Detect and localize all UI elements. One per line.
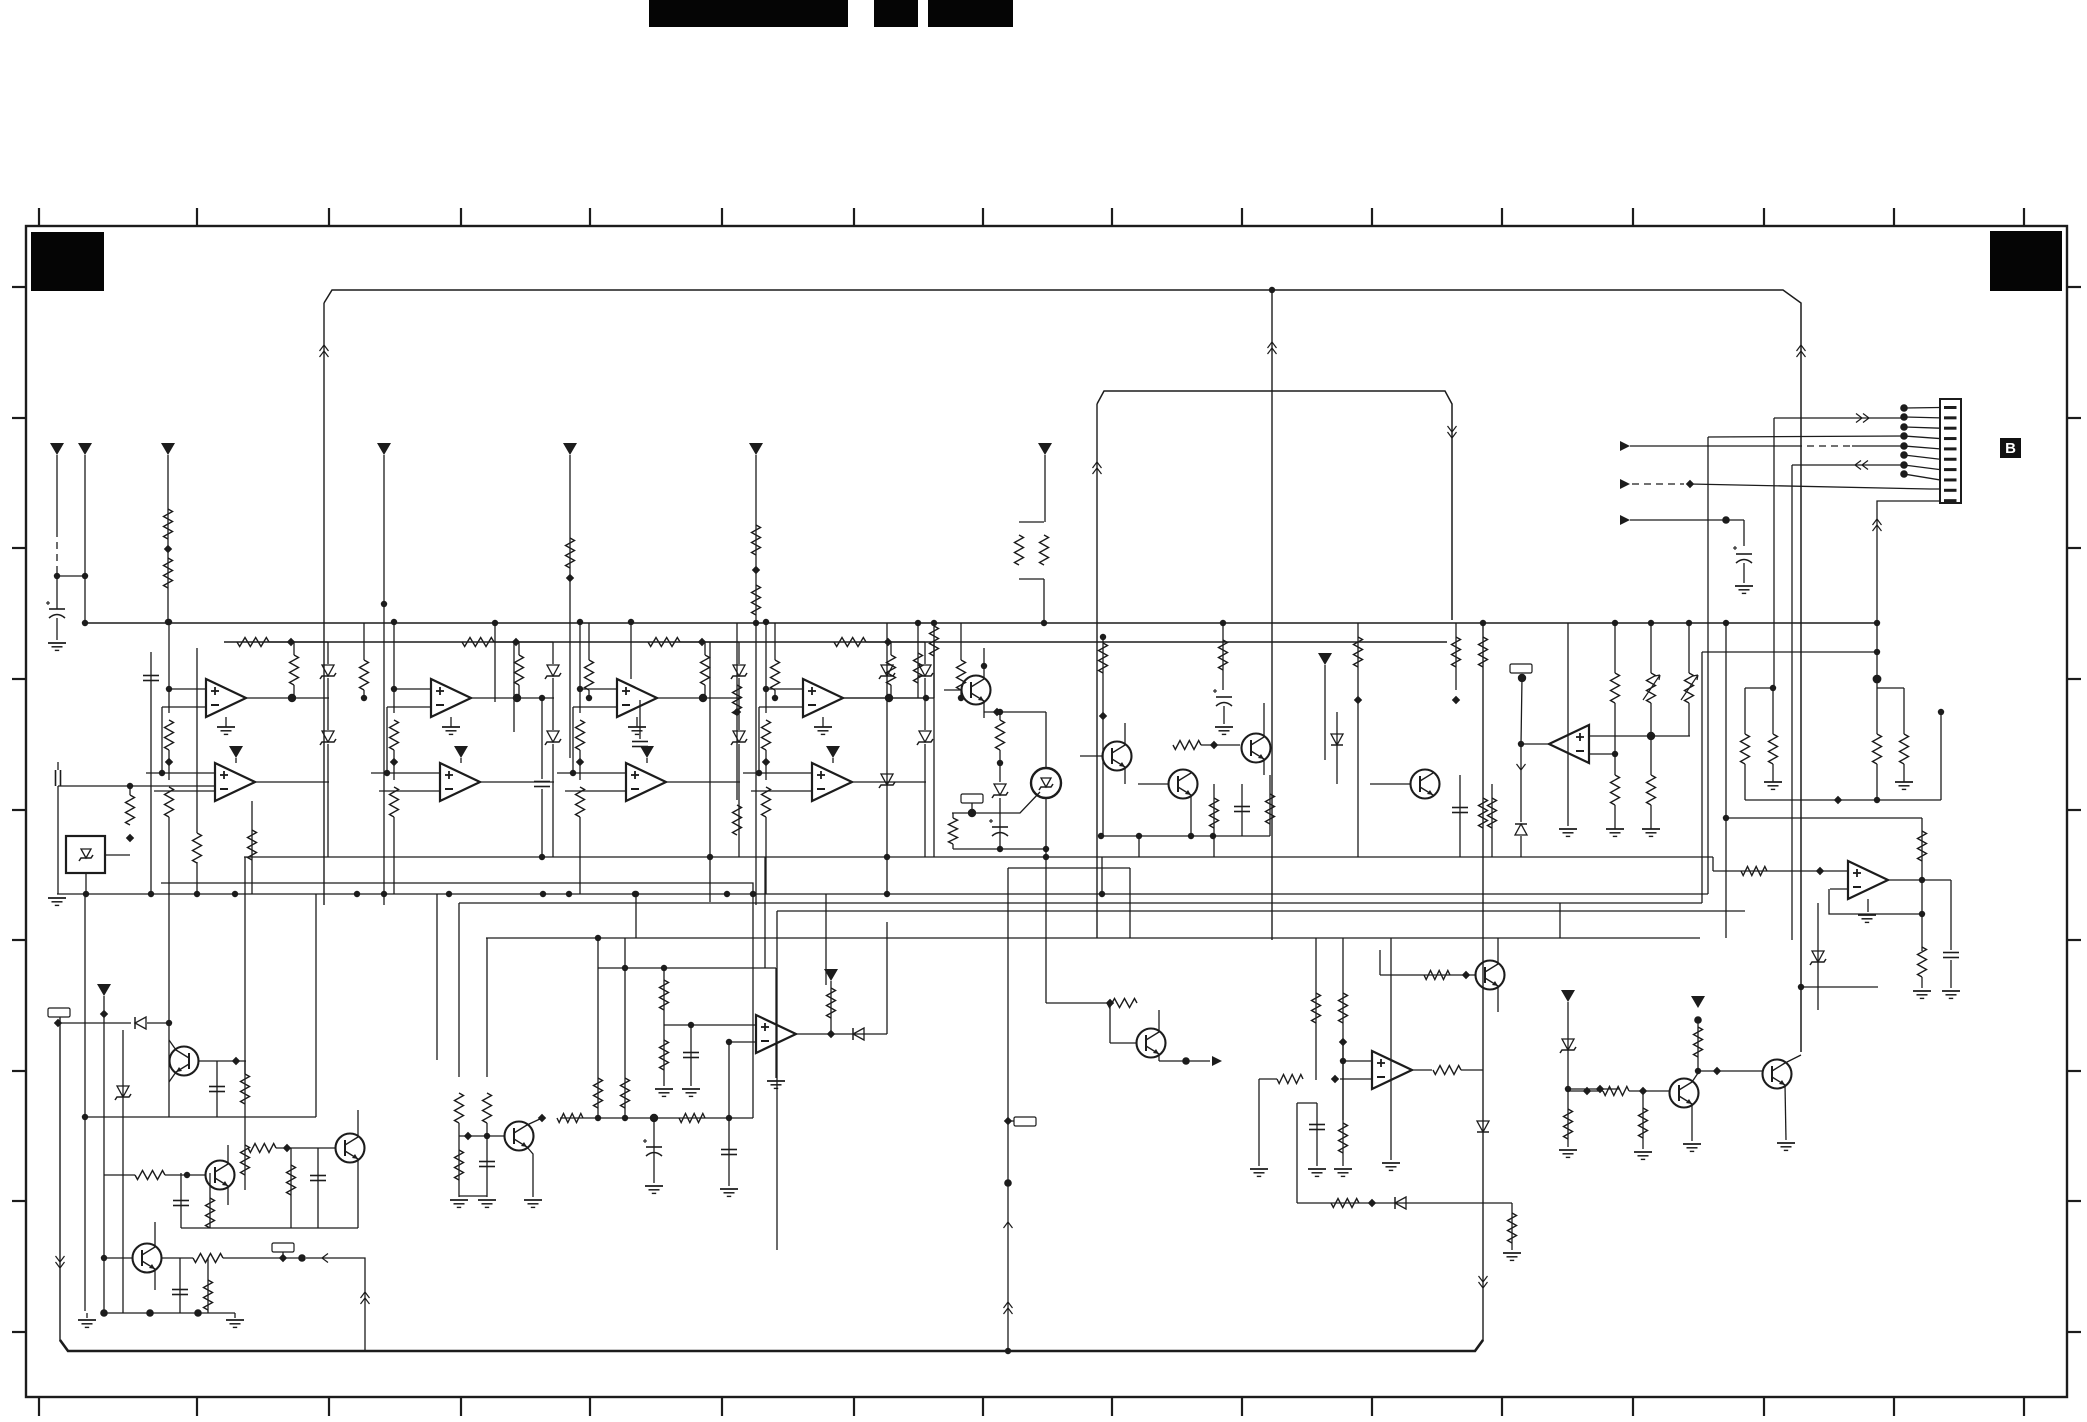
- zener diode D7b: [994, 784, 1006, 795]
- wire row437: [1708, 436, 1904, 437]
- wire row446a: [1630, 445, 1795, 447]
- junction rail894 l: [750, 891, 756, 897]
- wire D32 down: [738, 744, 740, 857]
- wire R22 lead: [588, 623, 590, 660]
- zener diode D12: [117, 1086, 129, 1097]
- ground G21: [1334, 1168, 1352, 1170]
- wire DZ1 right: [105, 854, 130, 856]
- wire Q1 base: [944, 689, 962, 691]
- wire P1 drop: [56, 455, 58, 530]
- wire P7 drop: [1044, 455, 1046, 522]
- wire C1 gnd lead: [56, 618, 58, 640]
- wire N3 lead: [59, 1017, 61, 1018]
- ground G15: [478, 1199, 496, 1201]
- wire U9 top: [1045, 712, 1047, 768]
- wire v1316: [1315, 938, 1317, 1080]
- resistor R53: [660, 980, 669, 1010]
- wire arrow bus2 left: [1093, 462, 1102, 468]
- zener diode D12: [322, 731, 334, 742]
- resistor R65: [1694, 1027, 1703, 1057]
- wire R44-5 link: [765, 750, 767, 780]
- junction right bus 987: [1798, 984, 1804, 990]
- wire Q2 coll: [1124, 723, 1126, 745]
- junction D16: [1565, 1086, 1571, 1092]
- wire N4 lead: [282, 1252, 284, 1258]
- wire J1 node 4 to pin: [1904, 436, 1940, 439]
- resistor R66: [1603, 1087, 1629, 1096]
- wire R41 out: [165, 1174, 205, 1176]
- capacitor C7: [1216, 696, 1232, 698]
- junction 1102: [1099, 891, 1105, 897]
- junction J1 node 5: [1900, 442, 1908, 450]
- wire gate row: [952, 792, 1040, 813]
- wire arrow row465: [1855, 461, 1861, 470]
- junction colD 857: [884, 854, 890, 860]
- wire arrow v365: [361, 1292, 370, 1298]
- wire colA v197 lower: [196, 862, 198, 894]
- thyristor U9 circle: [1031, 768, 1061, 798]
- wire D12 down: [327, 744, 329, 857]
- junction R42 out: [958, 695, 964, 701]
- wire row1313: [104, 1312, 235, 1314]
- wire U8 +in: [1343, 1060, 1372, 1062]
- wire J1 node 7 to pin: [1904, 465, 1940, 470]
- resistor R31: [1647, 775, 1656, 805]
- redaction bar 2 (top): [874, 0, 918, 27]
- signal arrow A4: [1212, 1056, 1222, 1066]
- wire Q11 emit: [1158, 1054, 1160, 1061]
- wire v1560: [1559, 903, 1561, 938]
- capacitor C12: [209, 1086, 225, 1088]
- wire U6 out: [1888, 879, 1951, 881]
- zener diode D42: [919, 731, 931, 742]
- connector J1 pin 3: [1944, 427, 1957, 430]
- wire v316b: [315, 894, 317, 1117]
- wire row1203: [1297, 1202, 1512, 1204]
- junction row968b: [661, 965, 667, 971]
- wire v625: [624, 938, 626, 1118]
- junction U1A out: [288, 694, 296, 702]
- wire U1A -in: [162, 706, 206, 708]
- power flag P6: [749, 443, 763, 455]
- wire C17 v: [653, 1118, 655, 1183]
- redaction bar 3 (top): [928, 0, 1013, 27]
- connector J1 pin 9: [1944, 489, 1957, 492]
- resistor R20: [996, 720, 1005, 750]
- wire v459: [458, 903, 460, 1077]
- resistor R4: [752, 525, 761, 555]
- junction pair link: [1770, 685, 1776, 691]
- junction row1118a: [595, 1115, 601, 1121]
- wire U2A fb: [386, 707, 388, 773]
- zener diode D41: [919, 665, 931, 676]
- resistor R5: [752, 585, 761, 615]
- junction riser 1008 bottom: [1005, 1348, 1011, 1354]
- wire colD link: [843, 697, 934, 699]
- wire R23 link: [1201, 744, 1240, 746]
- wire Q1 coll: [983, 648, 985, 679]
- junction trio rail 0: [1612, 620, 1618, 626]
- wire R42 row: [276, 1147, 335, 1149]
- resistor R1: [164, 509, 173, 539]
- wire v888: [886, 922, 888, 1034]
- wire R43 link: [866, 641, 925, 643]
- wire riser x=1008: [1007, 868, 1009, 1351]
- wire R66 in: [1568, 1090, 1603, 1092]
- sheet reference label B: [2000, 438, 2021, 458]
- wire Q12 coll: [1692, 1073, 1698, 1082]
- wire R67 v: [1642, 1091, 1644, 1149]
- resistor R38: [1918, 947, 1927, 977]
- wire row484 dashed: [1632, 483, 1684, 485]
- wire D42 lead: [924, 698, 926, 730]
- wire R17 v: [917, 623, 919, 698]
- resistor R61: [1339, 1123, 1348, 1153]
- connector J1 body: [1940, 399, 1961, 503]
- ground G25: [1634, 1151, 1652, 1153]
- diode D13: [853, 1028, 864, 1040]
- wire U6 fb: [1829, 889, 1922, 914]
- wire R42 lead: [960, 623, 962, 660]
- wire U3A out: [657, 697, 740, 699]
- zener diode D21: [547, 665, 559, 676]
- wire R45 v: [207, 1258, 209, 1313]
- resistor R33: [648, 638, 680, 647]
- power flag P5: [563, 443, 577, 455]
- junction U4A out: [885, 694, 893, 702]
- resistor R8: [1040, 535, 1049, 565]
- wire U2A gnd lead: [450, 717, 452, 727]
- wire bottom bus (net GNDR): [60, 1340, 1483, 1351]
- resistor R40: [241, 1145, 250, 1175]
- wire G13 lead: [234, 1313, 236, 1318]
- ground G11: [1735, 585, 1753, 587]
- wire Q10 coll: [527, 1118, 542, 1125]
- wire R39 v: [244, 1061, 246, 1117]
- ground G14: [450, 1199, 468, 1201]
- power flag P3: [161, 443, 175, 455]
- wire D22 down: [552, 744, 554, 857]
- junction 636: [633, 891, 639, 897]
- resistor R26: [1354, 637, 1363, 667]
- wire R35 down: [579, 817, 581, 894]
- zener diode DZ1s: [81, 849, 91, 858]
- wire Q11 coll: [1158, 1010, 1160, 1032]
- resistor R28: [1488, 798, 1497, 828]
- power flag P10: [824, 969, 838, 981]
- wire R30 gnd: [1614, 805, 1616, 829]
- zener diode D7 (in U9): [1041, 778, 1051, 787]
- resistor R51: [594, 1078, 603, 1108]
- junction U9 bot: [1043, 846, 1049, 852]
- wire R25 v: [1269, 775, 1271, 836]
- resistor R30: [1611, 775, 1620, 805]
- net label N5: [1014, 1117, 1036, 1126]
- resistor R42: [957, 660, 966, 690]
- wire x1000 col mid: [999, 750, 1001, 782]
- wire P1-P2 link: [57, 575, 85, 577]
- transistor Q1: [962, 676, 991, 705]
- wire Q9 coll: [154, 1222, 156, 1247]
- junction rail894 f: [381, 891, 387, 897]
- op-amp U3A: [617, 679, 657, 717]
- wire v1130: [1129, 868, 1131, 938]
- resistor R12: [126, 795, 135, 825]
- diode D11: [135, 1017, 146, 1029]
- wire rail857 corner: [1712, 857, 1714, 871]
- wire v826: [825, 894, 827, 985]
- wire D21 lead: [552, 642, 554, 664]
- ground G20: [1308, 1168, 1326, 1170]
- wire R21 leads: [518, 642, 520, 655]
- resistor R32: [771, 660, 780, 690]
- junction U5 out: [1518, 741, 1524, 747]
- junction right 652: [1873, 675, 1882, 684]
- wire P8 drop: [1324, 665, 1326, 760]
- junction U4A +: [763, 686, 769, 692]
- junction U6 out: [1919, 877, 1925, 883]
- wire R14-5 link: [168, 750, 170, 780]
- wire Q3 emit down: [1190, 795, 1192, 836]
- wire Q6 emit: [169, 1072, 176, 1082]
- junction row1118b2: [622, 1115, 628, 1121]
- wire Q11 b-drop: [1109, 1003, 1111, 1043]
- wire U4B out: [852, 781, 926, 783]
- ground G9: [1913, 990, 1931, 992]
- wire row836 drop: [1138, 836, 1140, 857]
- junction colD out: [923, 695, 929, 701]
- capacitor C14: [172, 1289, 188, 1291]
- junction U2A out: [513, 694, 521, 702]
- wire P5 drop: [569, 455, 571, 758]
- wire bottom bus left riser: [59, 1018, 61, 1341]
- junction row836d: [1210, 833, 1216, 839]
- title block square (top-left): [31, 232, 104, 291]
- wire Q2 emit: [1124, 767, 1126, 784]
- transistor Q7: [206, 1161, 235, 1190]
- wire D16 v: [1567, 1002, 1569, 1089]
- capacitor C2: [143, 675, 159, 677]
- wire zener box drop: [85, 873, 87, 894]
- wire R21 down: [518, 685, 520, 698]
- wire arrow top bus left: [320, 345, 329, 351]
- signal arrow A3: [1620, 515, 1630, 525]
- wire R41 leads: [890, 642, 892, 655]
- wire return rail 3 (y=903): [459, 902, 1702, 904]
- junction P6a: [753, 620, 759, 626]
- op-amp U2A: [431, 679, 471, 717]
- wire v1046b: [1045, 857, 1047, 1003]
- wire J1 node 5 to pin: [1904, 446, 1940, 449]
- wire col4 input column: [765, 622, 767, 713]
- wire R32 down: [1744, 764, 1746, 800]
- junction J1 node 1: [1900, 404, 1908, 412]
- junction row520: [1722, 516, 1730, 524]
- wire trio top 1: [1650, 623, 1652, 673]
- junction colB 623: [492, 620, 498, 626]
- net label N1: [961, 794, 983, 803]
- wire U6 +in: [1713, 870, 1848, 872]
- wire U1B -in: [154, 790, 215, 792]
- wire Q14 coll: [1497, 938, 1499, 964]
- wire Q4 emit: [1263, 759, 1265, 775]
- resistor R14: [165, 720, 174, 750]
- power flag P1: [50, 443, 64, 455]
- wire arrow v1878: [1873, 519, 1882, 525]
- wire R64 v: [1567, 1089, 1569, 1147]
- junction v1941: [1938, 709, 1944, 715]
- zener diode D22: [547, 731, 559, 742]
- ground G28: [1559, 828, 1577, 830]
- potentiometer VR1: [1647, 673, 1656, 703]
- zener diode D5: [881, 665, 893, 676]
- resistor R68: [1479, 637, 1488, 667]
- wire row520 drop: [1743, 520, 1745, 546]
- wire R41 down: [890, 685, 892, 698]
- wire U1A fb: [161, 707, 163, 773]
- wire Q8 loop: [357, 1180, 359, 1228]
- wire arrow bottom bus left: [56, 1256, 65, 1262]
- op-amp U1A: [206, 679, 246, 717]
- junction P2a: [82, 573, 88, 579]
- resistor R60: [1433, 1066, 1461, 1075]
- wire R38 gnd: [1921, 977, 1923, 988]
- wire v636: [635, 894, 637, 938]
- capacitor C8: [1234, 806, 1250, 808]
- resistor R22: [585, 660, 594, 690]
- wire Q12 row: [1698, 1070, 1763, 1072]
- wire Q4 coll: [1263, 703, 1265, 737]
- resistor R11: [193, 833, 202, 863]
- wire U3A gnd lead: [636, 717, 638, 727]
- wire R65 v: [1697, 1020, 1699, 1071]
- wire v729: [728, 1042, 730, 1147]
- wire bottom bus right riser: [1482, 623, 1484, 1341]
- wire P1 node: [56, 566, 58, 595]
- junction Q12c: [1695, 1068, 1701, 1074]
- junction row836a: [1098, 833, 1104, 839]
- resistor R25: [1266, 794, 1275, 824]
- wire Q10 base: [459, 1135, 504, 1137]
- junction colB 857: [539, 854, 545, 860]
- wire v1726: [1725, 623, 1727, 938]
- wire U2A +in: [394, 688, 431, 690]
- power flag P1B: [229, 746, 243, 758]
- junction U4B in: [756, 770, 762, 776]
- wire U7 -in: [729, 1041, 756, 1043]
- wire colC v737: [736, 623, 738, 800]
- junction v1008: [1004, 1179, 1012, 1187]
- junction riser rail A: [1480, 620, 1486, 626]
- net label N4: [272, 1243, 294, 1252]
- junction R21 top: [1100, 634, 1106, 640]
- wire R35 gnd: [1903, 764, 1905, 782]
- junction trio rail 1: [1648, 620, 1654, 626]
- wire U7 +in: [664, 1024, 756, 1026]
- junction col1 rail: [166, 619, 172, 625]
- junction colC 857: [707, 854, 713, 860]
- wire C9 v: [1459, 775, 1461, 857]
- wire R35 top: [1903, 688, 1905, 734]
- wire C15 v: [486, 1137, 488, 1197]
- bottom border tick marks: [38, 1397, 40, 1416]
- wire D10 v: [1817, 903, 1819, 1010]
- wire row1203 left: [1296, 1103, 1298, 1203]
- wire col1 input column: [168, 622, 170, 713]
- ground G3: [1215, 726, 1233, 728]
- junction R41: [184, 1172, 190, 1178]
- wire right row 652: [1702, 651, 1877, 653]
- ground G1A: [217, 726, 235, 728]
- wire P6 drop: [755, 455, 757, 905]
- junction colD 894: [884, 891, 890, 897]
- junction U8 +node: [1340, 1058, 1346, 1064]
- junction centre drop top: [1269, 287, 1275, 293]
- junction col2 rail: [391, 619, 397, 625]
- wire colB v514: [513, 642, 515, 732]
- wire C19 jog: [1297, 1102, 1317, 1104]
- wire U4B -in: [751, 790, 812, 792]
- zener diode D31: [733, 665, 745, 676]
- connector J1 pin 6: [1944, 458, 1957, 461]
- wire v245 up: [244, 857, 246, 1074]
- wire U4A +in: [766, 688, 803, 690]
- resistor R39: [241, 1074, 250, 1104]
- wire arrow centre drop: [1268, 342, 1277, 348]
- wire row968: [598, 967, 776, 969]
- junction U1A +: [166, 686, 172, 692]
- resistor R32: [1741, 734, 1750, 764]
- wire P2 drop: [84, 455, 86, 623]
- junction P3 rail: [165, 619, 171, 625]
- junction U6 fb: [1919, 911, 1925, 917]
- wire R54 v: [830, 981, 832, 1034]
- wire R46 mid: [458, 1123, 460, 1137]
- power flag P2B: [454, 746, 468, 758]
- wire R15 down: [168, 817, 170, 894]
- wire P4B stub: [832, 758, 834, 763]
- wire U3B +in: [557, 772, 626, 774]
- wire U2B out: [480, 781, 554, 783]
- junction rail894 i: [566, 891, 572, 897]
- wire P1 dashed: [56, 530, 58, 566]
- op-amp U1B: [215, 763, 255, 801]
- wire U7 vcc col: [775, 968, 777, 1078]
- wire v123 ext: [122, 1190, 124, 1313]
- junction row1313c: [194, 1309, 202, 1317]
- wire R41 in: [104, 1174, 135, 1176]
- junction row800: [1874, 797, 1880, 803]
- resistor R15: [165, 787, 174, 817]
- junction rail894 d: [232, 891, 238, 897]
- wire U3A -in: [573, 706, 617, 708]
- junction x1000: [997, 760, 1003, 766]
- wire J1 node 6 to pin: [1904, 455, 1940, 459]
- ground G7: [1895, 781, 1913, 783]
- resistor R29: [1611, 673, 1620, 703]
- capacitor C15: [479, 1161, 495, 1163]
- connector J1 pin 1: [1944, 406, 1957, 409]
- wire top bus left drop: [323, 303, 325, 905]
- wire U5 out: [1521, 743, 1549, 745]
- resistor R23: [1173, 741, 1201, 750]
- wire R41b v: [209, 1173, 211, 1228]
- wire row1118: [85, 1116, 316, 1118]
- wire Q7 coll: [227, 1145, 229, 1164]
- transistor Q13: [1763, 1060, 1792, 1089]
- wire C3 top: [57, 762, 59, 770]
- junction rail894 j: [632, 891, 638, 897]
